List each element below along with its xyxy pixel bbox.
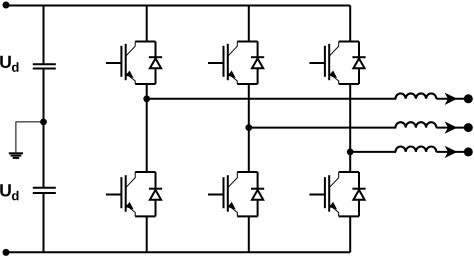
terminal: DC+ input dot (3, 2, 10, 9)
arrow: phase C output (445, 146, 458, 158)
wire: Q4/D4 top link (237, 171, 257, 173)
wire: phase A output line (147, 98, 397, 100)
inductor L3 (396, 146, 437, 151)
wire: leg B mid stub (248, 84, 250, 172)
diode D5 (freewheeling) (352, 42, 365, 85)
wire: leg A mid stub (146, 84, 148, 172)
inductor L1 (396, 93, 437, 98)
wire: Q2/D2 bottom link (135, 215, 155, 217)
wire: DC- bottom rail (6, 251, 350, 253)
wire: Q5/D5 bottom link (339, 83, 359, 85)
wire: leg B top stub (248, 6, 250, 42)
transistor Q5 (IGBT) (309, 42, 338, 85)
transistor Q3 (IGBT) (208, 42, 237, 85)
transistor Q1 (IGBT) (106, 42, 135, 85)
capacitor C1 (33, 64, 56, 68)
junction: phase C node (347, 149, 354, 156)
terminal: phase B dot (464, 123, 473, 132)
wire: ground tap (16, 122, 44, 152)
transistor Q6 (IGBT) (309, 172, 338, 216)
diode D4 (freewheeling) (251, 172, 264, 216)
wire: leg C top stub (349, 6, 351, 42)
wire: Q4/D4 bottom link (237, 215, 257, 217)
capacitor C2 (33, 188, 56, 193)
diode D1 (freewheeling) (149, 42, 162, 85)
wire: Q3/D3 bottom link (237, 83, 257, 85)
wire: Q6/D6 top link (339, 171, 359, 173)
value label Ud (C1) (0, 56, 18, 72)
wire: leg A top stub (146, 6, 148, 42)
arrow: phase A output (445, 93, 458, 105)
wire: Q1/D1 bottom link (135, 83, 155, 85)
wire: phase B output line (249, 127, 396, 129)
diode D6 (freewheeling) (352, 172, 365, 216)
wire: Q6/D6 bottom link (339, 215, 359, 217)
wire: DC+ top rail (6, 5, 350, 7)
wire: L3 to arrow (436, 151, 464, 153)
wire: leg C mid stub (349, 84, 351, 172)
transistor Q2 (IGBT) (106, 172, 135, 216)
wire: Q2/D2 top link (135, 171, 155, 173)
wire: L2 to arrow (436, 127, 464, 129)
wire: bus lower segment (43, 193, 45, 252)
value label Ud (C2) (0, 184, 18, 200)
diode D3 (freewheeling) (251, 42, 264, 85)
wire: Q1/D1 top link (135, 41, 155, 43)
wire: L1 to arrow (436, 98, 464, 100)
wire: DC-link bus upper segment (43, 6, 45, 64)
ground (9, 153, 23, 158)
wire: leg C bottom stub (349, 216, 351, 252)
wire: bus middle segment (43, 69, 45, 188)
junction: DC-link midpoint node (40, 119, 47, 126)
terminal: DC- input dot (3, 249, 10, 256)
wire: phase C output line (350, 151, 396, 153)
junction: phase B node (245, 124, 252, 131)
inductor L2 (396, 122, 437, 127)
terminal: phase A dot (464, 94, 473, 103)
wire: leg B bottom stub (248, 216, 250, 252)
wire: Q5/D5 top link (339, 41, 359, 43)
junction: phase A node (143, 95, 150, 102)
wire: Q3/D3 top link (237, 41, 257, 43)
arrow: phase B output (445, 121, 458, 133)
transistor Q4 (IGBT) (208, 172, 237, 216)
diode D2 (freewheeling) (149, 172, 162, 216)
terminal: phase C dot (464, 147, 473, 156)
wire: leg A bottom stub (146, 216, 148, 252)
